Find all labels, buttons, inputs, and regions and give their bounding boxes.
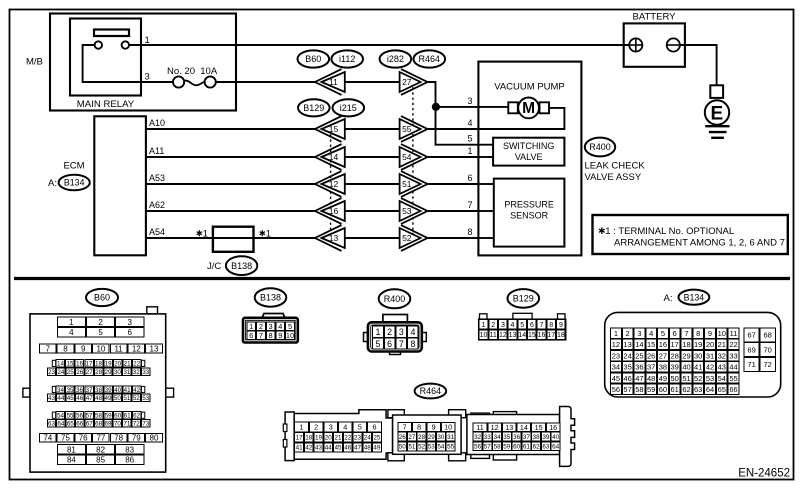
svg-text:35: 35 xyxy=(623,363,631,372)
svg-text:54: 54 xyxy=(718,374,726,383)
svg-text:7: 7 xyxy=(467,200,472,210)
svg-text:67: 67 xyxy=(86,421,94,428)
svg-text:69: 69 xyxy=(747,345,755,354)
wire to pin 7 xyxy=(428,210,478,212)
pin 5 label xyxy=(467,134,472,144)
svg-text:63: 63 xyxy=(542,443,550,450)
svg-text:65: 65 xyxy=(718,385,726,394)
pin 8 label xyxy=(467,227,472,237)
connector pinout B138 label xyxy=(255,288,287,306)
svg-text:4: 4 xyxy=(649,329,653,338)
svg-text:M: M xyxy=(522,100,535,117)
svg-text:10: 10 xyxy=(96,344,105,353)
svg-text:29: 29 xyxy=(682,351,690,360)
svg-text:51: 51 xyxy=(402,179,412,189)
svg-text:62: 62 xyxy=(133,413,141,420)
svg-text:18: 18 xyxy=(557,332,565,339)
svg-text:18: 18 xyxy=(305,435,313,442)
B60 pins 7-13 xyxy=(39,344,162,353)
svg-text:3: 3 xyxy=(145,72,150,83)
connector oval i215 xyxy=(333,99,365,116)
svg-text:11: 11 xyxy=(730,329,738,338)
svg-text:1: 1 xyxy=(69,318,74,327)
svg-text:26: 26 xyxy=(647,351,655,360)
connector arrow 52 xyxy=(400,225,428,251)
wire relay contact to pin 3 xyxy=(83,45,173,82)
svg-text:ARRANGEMENT AMONG 1, 2, 6 AND: ARRANGEMENT AMONG 1, 2, 6 AND 7 xyxy=(614,238,785,249)
svg-text:35: 35 xyxy=(503,434,511,441)
svg-text:B129: B129 xyxy=(303,103,324,113)
svg-text:17: 17 xyxy=(547,332,555,339)
svg-text:83: 83 xyxy=(125,445,134,454)
svg-text:15: 15 xyxy=(535,423,543,432)
svg-text:B138: B138 xyxy=(231,261,252,271)
pressure sensor box xyxy=(494,179,565,247)
connector pinout R464 shell xyxy=(283,407,574,467)
svg-text:16: 16 xyxy=(549,423,557,432)
svg-text:43: 43 xyxy=(718,363,726,372)
svg-text:R400: R400 xyxy=(384,294,406,304)
svg-text:9: 9 xyxy=(81,344,86,353)
svg-text:42: 42 xyxy=(706,363,714,372)
svg-text:5: 5 xyxy=(358,423,362,432)
svg-text:28: 28 xyxy=(418,434,426,441)
svg-text:60: 60 xyxy=(114,413,122,420)
svg-text:49: 49 xyxy=(104,395,112,402)
leak check valve assy box xyxy=(478,62,581,256)
svg-text:EN-24652: EN-24652 xyxy=(738,468,790,480)
svg-text:6: 6 xyxy=(673,329,677,338)
svg-text:11: 11 xyxy=(490,332,497,339)
svg-text:18: 18 xyxy=(95,361,103,368)
svg-text:A53: A53 xyxy=(149,173,165,183)
wire branch to pin 3 xyxy=(436,106,509,108)
svg-text:5: 5 xyxy=(520,322,524,329)
svg-text:10: 10 xyxy=(718,329,726,338)
svg-text:69: 69 xyxy=(104,421,112,428)
figure number EN-24652 xyxy=(738,468,790,480)
svg-text:8: 8 xyxy=(696,329,700,338)
B60 pins 74-80 xyxy=(39,433,162,442)
ECM pin A11 xyxy=(146,146,315,157)
svg-text:8: 8 xyxy=(467,227,472,237)
svg-text:59: 59 xyxy=(105,413,113,420)
connector pinout B60 label xyxy=(86,289,118,306)
svg-text:7: 7 xyxy=(403,423,407,432)
svg-text:36: 36 xyxy=(635,363,643,372)
svg-text:81: 81 xyxy=(67,445,76,454)
svg-text:67: 67 xyxy=(747,331,755,340)
svg-text:6: 6 xyxy=(249,331,253,340)
svg-text:i112: i112 xyxy=(339,54,355,64)
svg-text:1: 1 xyxy=(482,322,486,329)
svg-text:7: 7 xyxy=(540,322,544,329)
svg-text:43: 43 xyxy=(48,395,56,402)
svg-text:33: 33 xyxy=(729,351,737,360)
svg-text:ECM: ECM xyxy=(63,161,84,172)
svg-text:9: 9 xyxy=(708,329,712,338)
svg-text:SENSOR: SENSOR xyxy=(510,211,549,221)
svg-text:55: 55 xyxy=(729,374,737,383)
svg-text:43: 43 xyxy=(315,445,323,452)
svg-text:24: 24 xyxy=(57,369,65,376)
pin 3 label xyxy=(145,72,150,83)
svg-text:20: 20 xyxy=(325,435,333,442)
svg-text:34: 34 xyxy=(612,363,620,372)
svg-text:14: 14 xyxy=(520,423,528,432)
connector arrow 14 xyxy=(315,144,345,170)
svg-text:16: 16 xyxy=(76,361,84,368)
svg-text:63: 63 xyxy=(48,421,56,428)
svg-text:7: 7 xyxy=(259,331,263,340)
svg-text:38: 38 xyxy=(95,387,103,394)
svg-text:PRESSURE: PRESSURE xyxy=(504,200,554,210)
svg-text:54: 54 xyxy=(57,413,65,420)
svg-text:50: 50 xyxy=(671,374,679,383)
svg-text:3: 3 xyxy=(501,322,505,329)
svg-text:A:: A: xyxy=(664,293,673,304)
main relay MAIN RELAY xyxy=(70,19,141,111)
svg-text:23: 23 xyxy=(354,435,362,442)
relay coil xyxy=(94,30,129,37)
svg-text:80: 80 xyxy=(150,434,159,443)
svg-text:71: 71 xyxy=(123,421,131,428)
svg-text:i215: i215 xyxy=(340,103,357,113)
B60 pins 34-53 xyxy=(47,386,150,402)
svg-text:1: 1 xyxy=(614,329,618,338)
svg-text:31: 31 xyxy=(706,351,714,360)
svg-text:57: 57 xyxy=(484,443,492,450)
svg-text:49: 49 xyxy=(373,445,381,452)
svg-text:12: 12 xyxy=(612,340,620,349)
R464 pins 1-6,17-25,41-49 xyxy=(295,422,382,452)
svg-text:SWITCHING: SWITCHING xyxy=(503,141,555,151)
svg-text:VALVE ASSY: VALVE ASSY xyxy=(585,172,642,183)
svg-text:13: 13 xyxy=(623,340,631,349)
svg-text:53: 53 xyxy=(142,395,150,402)
switching valve box xyxy=(493,138,564,166)
B134 pins 1-66 xyxy=(611,328,739,395)
connector pinout R464 label xyxy=(415,384,447,399)
svg-text:26: 26 xyxy=(76,369,84,376)
svg-text:5: 5 xyxy=(288,322,292,331)
pin 3 label xyxy=(467,96,472,106)
svg-text:4: 4 xyxy=(343,423,347,432)
wire between connectors xyxy=(345,237,400,239)
svg-text:R464: R464 xyxy=(419,54,441,64)
svg-text:63: 63 xyxy=(694,385,702,394)
svg-text:52: 52 xyxy=(694,374,702,383)
svg-text:25: 25 xyxy=(373,435,381,442)
svg-text:61: 61 xyxy=(671,385,679,394)
connector arrow 27 xyxy=(400,69,428,95)
svg-text:1: 1 xyxy=(376,327,381,337)
connector arrow 53 xyxy=(400,198,428,224)
svg-text:16: 16 xyxy=(329,206,339,216)
svg-text:M/B: M/B xyxy=(26,57,43,68)
svg-text:A62: A62 xyxy=(149,200,165,210)
svg-text:56: 56 xyxy=(76,413,84,420)
svg-text:4: 4 xyxy=(511,322,515,329)
R400 pins xyxy=(373,326,419,349)
wire pin 6 inside xyxy=(478,183,493,185)
svg-text:2: 2 xyxy=(491,322,495,329)
svg-text:25: 25 xyxy=(67,369,75,376)
svg-text:39: 39 xyxy=(105,387,113,394)
svg-text:50: 50 xyxy=(114,395,122,402)
svg-text:13: 13 xyxy=(509,332,517,339)
pin 1 label xyxy=(467,146,472,156)
svg-text:57: 57 xyxy=(623,385,631,394)
svg-text:B134: B134 xyxy=(64,178,85,188)
relay contact 1 xyxy=(95,41,102,48)
svg-text:37: 37 xyxy=(647,363,655,372)
connector arrow 13 xyxy=(315,225,345,251)
svg-text:51: 51 xyxy=(123,395,131,402)
svg-text:1: 1 xyxy=(266,229,271,240)
svg-text:22: 22 xyxy=(133,361,141,368)
wire battery to ground xyxy=(680,45,717,85)
svg-text:34: 34 xyxy=(57,387,65,394)
svg-text:58: 58 xyxy=(494,443,502,450)
dashed link right column xyxy=(412,82,414,238)
ground E xyxy=(705,85,730,138)
svg-text:61: 61 xyxy=(124,413,132,420)
svg-text:41: 41 xyxy=(296,445,304,452)
connector pinout R400 shell xyxy=(364,315,427,355)
svg-text:51: 51 xyxy=(682,374,690,383)
wire to pin 6 xyxy=(428,183,478,185)
ECM pin A62 xyxy=(146,200,315,211)
svg-text:LEAK CHECK: LEAK CHECK xyxy=(585,161,646,172)
svg-text:7: 7 xyxy=(684,329,688,338)
svg-text:3: 3 xyxy=(399,327,404,337)
svg-text:34: 34 xyxy=(494,434,502,441)
connector oval B129 xyxy=(298,99,330,116)
svg-text:1: 1 xyxy=(249,322,253,331)
svg-text:B134: B134 xyxy=(684,292,705,302)
M/B box xyxy=(26,14,236,111)
svg-text:15: 15 xyxy=(329,124,339,134)
svg-text:53: 53 xyxy=(402,206,412,216)
svg-text:17: 17 xyxy=(85,361,93,368)
svg-text:14: 14 xyxy=(518,332,526,339)
pin 1 label xyxy=(145,35,150,46)
wire between connectors xyxy=(345,156,400,158)
svg-text:14: 14 xyxy=(635,340,643,349)
svg-text:84: 84 xyxy=(67,455,76,464)
svg-text:53: 53 xyxy=(706,374,714,383)
B60 pins 14-33 xyxy=(47,360,150,376)
svg-text:8: 8 xyxy=(410,339,415,349)
svg-text:47: 47 xyxy=(635,374,643,383)
B60 pins 54-73 xyxy=(47,412,150,428)
svg-text:24: 24 xyxy=(364,435,372,442)
svg-text:31: 31 xyxy=(447,434,455,441)
svg-text:16: 16 xyxy=(659,340,667,349)
svg-text:10: 10 xyxy=(286,331,294,340)
svg-text:B60: B60 xyxy=(94,293,110,303)
svg-text:3: 3 xyxy=(637,329,641,338)
svg-text:12: 12 xyxy=(132,344,141,353)
svg-text:11: 11 xyxy=(476,423,483,432)
connector oval B60 xyxy=(298,50,330,67)
svg-text:48: 48 xyxy=(647,374,655,383)
wire between connectors xyxy=(345,183,400,185)
svg-text:16: 16 xyxy=(538,332,546,339)
svg-text:74: 74 xyxy=(43,434,52,443)
svg-text:64: 64 xyxy=(552,443,560,450)
relay contact 2 xyxy=(122,41,129,48)
svg-text:62: 62 xyxy=(533,443,541,450)
svg-text:7: 7 xyxy=(46,344,51,353)
pin 6 label xyxy=(467,173,472,183)
svg-text:66: 66 xyxy=(76,421,84,428)
svg-text:i282: i282 xyxy=(387,54,404,64)
svg-text:42: 42 xyxy=(305,445,313,452)
svg-text:23: 23 xyxy=(48,369,56,376)
svg-text:36: 36 xyxy=(513,434,521,441)
svg-text:28: 28 xyxy=(95,369,103,376)
R464 pins 11-16,32-40,56-64 xyxy=(473,423,560,451)
svg-text:12: 12 xyxy=(491,423,499,432)
svg-text:38: 38 xyxy=(659,363,667,372)
svg-text:72: 72 xyxy=(133,421,141,428)
svg-text:68: 68 xyxy=(764,331,772,340)
svg-text:4: 4 xyxy=(410,327,415,337)
svg-text:27: 27 xyxy=(659,351,667,360)
connector pinout B129 shell xyxy=(479,313,566,340)
svg-text:66: 66 xyxy=(729,385,737,394)
svg-text:79: 79 xyxy=(132,434,141,443)
svg-text:18: 18 xyxy=(682,340,690,349)
svg-text:68: 68 xyxy=(95,421,103,428)
svg-text:61: 61 xyxy=(523,443,531,450)
svg-text:54: 54 xyxy=(437,444,445,451)
svg-text:36: 36 xyxy=(76,387,84,394)
svg-text:11: 11 xyxy=(329,77,338,87)
svg-text:12: 12 xyxy=(499,332,507,339)
svg-text:59: 59 xyxy=(503,443,511,450)
svg-text:47: 47 xyxy=(354,445,362,452)
svg-text:64: 64 xyxy=(706,385,714,394)
wire pin 7 inside xyxy=(478,210,493,212)
svg-text:51: 51 xyxy=(408,444,416,451)
junction node xyxy=(432,103,440,111)
divider xyxy=(14,277,790,280)
svg-text:8: 8 xyxy=(63,344,68,353)
wire between connectors xyxy=(345,210,400,212)
B129 pins xyxy=(479,320,565,340)
svg-text:50: 50 xyxy=(399,444,407,451)
connector arrow 55 xyxy=(400,116,428,142)
wire fuse to connector 11 xyxy=(216,81,315,83)
svg-text:8: 8 xyxy=(269,331,273,340)
svg-text:6: 6 xyxy=(373,423,377,432)
svg-text:19: 19 xyxy=(694,340,702,349)
B138 pins xyxy=(247,322,294,340)
svg-text:42: 42 xyxy=(133,387,141,394)
svg-text:39: 39 xyxy=(671,363,679,372)
svg-text:1 : TERMINAL No. OPTIONAL: 1 : TERMINAL No. OPTIONAL xyxy=(605,226,734,237)
svg-text:29: 29 xyxy=(428,434,436,441)
svg-text:No. 20 10A: No. 20 10A xyxy=(167,66,218,77)
svg-text:A10: A10 xyxy=(149,118,165,128)
svg-text:4: 4 xyxy=(69,328,74,337)
wire between connectors xyxy=(345,128,400,130)
connector arrow 11 xyxy=(315,69,345,95)
connector arrow 15 xyxy=(315,116,345,142)
connector pinout B138 shell xyxy=(243,314,298,343)
wire pin 1 to battery xyxy=(129,44,629,46)
svg-text:38: 38 xyxy=(533,434,541,441)
connector pinout B129 label xyxy=(508,289,540,308)
svg-text:55: 55 xyxy=(402,124,412,134)
svg-text:13: 13 xyxy=(505,423,513,432)
svg-text:6: 6 xyxy=(387,339,392,349)
svg-text:17: 17 xyxy=(671,340,679,349)
svg-text:4: 4 xyxy=(278,322,282,331)
svg-text:24: 24 xyxy=(623,351,631,360)
svg-text:12: 12 xyxy=(329,179,339,189)
svg-text:46: 46 xyxy=(623,374,631,383)
svg-text:55: 55 xyxy=(66,413,74,420)
svg-text:58: 58 xyxy=(635,385,643,394)
svg-text:56: 56 xyxy=(612,385,620,394)
svg-text:20: 20 xyxy=(706,340,714,349)
svg-text:3: 3 xyxy=(269,322,273,331)
svg-text:52: 52 xyxy=(133,395,141,402)
svg-text:75: 75 xyxy=(61,434,70,443)
wire pin 8 inside xyxy=(478,237,493,239)
svg-text:77: 77 xyxy=(96,434,105,443)
svg-text:2: 2 xyxy=(626,329,630,338)
svg-text:J/C: J/C xyxy=(207,261,221,272)
svg-text:46: 46 xyxy=(76,395,84,402)
connector arrow 16 xyxy=(315,198,345,224)
svg-text:R400: R400 xyxy=(589,142,611,152)
svg-text:30: 30 xyxy=(437,434,445,441)
svg-text:46: 46 xyxy=(344,445,352,452)
svg-text:6: 6 xyxy=(530,322,534,329)
svg-text:44: 44 xyxy=(729,363,737,372)
svg-text:52: 52 xyxy=(418,444,426,451)
svg-text:17: 17 xyxy=(296,435,304,442)
svg-text:70: 70 xyxy=(764,345,772,354)
svg-text:5: 5 xyxy=(661,329,665,338)
svg-text:27: 27 xyxy=(86,369,94,376)
svg-text:6: 6 xyxy=(127,328,132,337)
svg-text:33: 33 xyxy=(484,434,492,441)
svg-text:13: 13 xyxy=(150,344,159,353)
connector oval i112 xyxy=(331,50,363,67)
svg-text:41: 41 xyxy=(124,387,132,394)
svg-text:27: 27 xyxy=(408,434,416,441)
dashed link left column xyxy=(330,129,332,238)
connector pinout B134 shell xyxy=(605,312,781,397)
svg-text:55: 55 xyxy=(447,444,455,451)
svg-text:A:: A: xyxy=(48,178,57,189)
ECM connector label A: B134 xyxy=(48,175,90,191)
svg-text:2: 2 xyxy=(314,423,318,432)
svg-text:14: 14 xyxy=(57,361,65,368)
connector arrow 54 xyxy=(400,144,428,170)
svg-text:40: 40 xyxy=(682,363,690,372)
svg-text:1: 1 xyxy=(203,229,208,240)
svg-text:39: 39 xyxy=(542,434,550,441)
svg-text:7: 7 xyxy=(399,339,404,349)
svg-text:E: E xyxy=(711,103,724,124)
